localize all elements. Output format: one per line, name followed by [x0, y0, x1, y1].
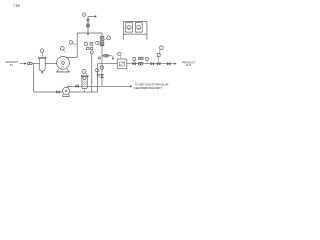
cabinet unit 2: [136, 23, 143, 32]
label circle 6 (drain): [95, 69, 99, 73]
label circle 4 (vent): [82, 13, 86, 17]
label circle 8: [160, 46, 164, 50]
node PRODUCT OUT label: [182, 60, 196, 67]
instrument bubble C: [96, 41, 100, 45]
label square H with stem: [146, 57, 148, 60]
valve V4: [167, 63, 170, 65]
instrument square B: [90, 42, 93, 45]
drain valve (vertical): [101, 75, 104, 78]
control component above V3: [157, 53, 160, 56]
wire inlet arrow: [20, 63, 25, 65]
label circle 2 (pump P1): [60, 47, 64, 51]
wire inlet to strainer: [32, 63, 39, 65]
valve V2: [151, 63, 154, 65]
label circle 3 (riser): [69, 41, 73, 45]
wire bottom recycle line: [34, 91, 98, 93]
cabinet unit 1: [126, 23, 133, 32]
vent stack wire: [87, 17, 89, 34]
label circle 9 (pot): [82, 69, 86, 73]
wire drain to storage: [102, 85, 130, 87]
wire downcomer: [101, 33, 103, 86]
filter (crosshatched) on downcomer: [100, 36, 104, 46]
label circle 1 (strainer): [40, 49, 44, 53]
instrument square D: [87, 47, 89, 49]
valve V3: [157, 63, 160, 65]
wire branch down at 97.5: [97, 64, 99, 92]
label circle 5 (filter): [107, 36, 111, 40]
junction arrow at vent tee: [87, 33, 89, 35]
pressure gauge on standpipe: [90, 51, 93, 54]
note TO WET GAS STORAGE: [134, 83, 168, 91]
wire pump2 discharge header: [67, 85, 102, 87]
wire main process line left: [98, 63, 118, 65]
vent stack relief valve (diamond): [87, 18, 90, 22]
wire pump discharge riser: [76, 33, 78, 57]
node PRODUCT IN label: [5, 60, 19, 67]
svg-text:OUT: OUT: [185, 63, 191, 67]
valve V1 with top work: [133, 63, 136, 65]
label circle 7 (control box): [118, 52, 122, 56]
vent outlet wire: [88, 16, 95, 18]
strainer vessel: [39, 57, 46, 58]
label square G: [97, 74, 99, 76]
control box on main line: [117, 59, 127, 68]
inline sight glass on drain: [100, 66, 104, 70]
rotameter labels: [138, 57, 140, 59]
wire strainer to pump: [45, 63, 56, 65]
wire main process line right: [127, 63, 175, 65]
wire recycle tee down: [33, 64, 35, 93]
pump P2 (recycle): [62, 87, 69, 94]
label square F: [98, 57, 100, 59]
wire top header: [77, 32, 102, 34]
valve V6 on discharge: [76, 85, 79, 87]
knockout pot: [81, 75, 88, 76]
instrument bubble A: [84, 42, 88, 46]
check valve inlet: [27, 62, 30, 65]
pump P1 (centrifugal): [57, 57, 70, 70]
svg-text:IN: IN: [10, 63, 13, 67]
instrument bubble E: [90, 47, 93, 50]
svg-text:7.80: 7.80: [13, 4, 20, 8]
sample branch capsule: [102, 55, 112, 57]
svg-text:DEHYDRATION FACILITY: DEHYDRATION FACILITY: [134, 86, 162, 90]
cabinet frame: [123, 22, 146, 40]
wire standpipe: [91, 54, 93, 92]
valve V5 on recycle: [57, 91, 60, 93]
rotameter (double circle): [138, 62, 141, 65]
vent stack fitting: [87, 24, 90, 27]
